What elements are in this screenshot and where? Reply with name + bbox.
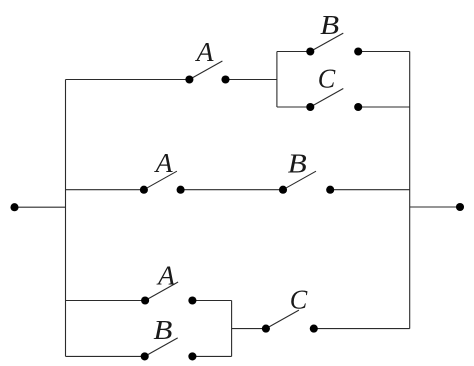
switch A1 blade <box>189 61 222 80</box>
svg-text:C: C <box>318 63 336 93</box>
svg-text:A: A <box>154 148 174 178</box>
label B3 <box>153 315 172 345</box>
wire bottom B right <box>192 355 231 357</box>
switch B1 blade <box>310 33 343 51</box>
wire top branch right <box>226 79 277 81</box>
switch A2 contact left <box>140 186 148 194</box>
right bus wire <box>409 52 411 329</box>
wire B1 right <box>358 51 410 53</box>
wire C1 right <box>358 106 410 108</box>
switch A3 contact right <box>188 296 196 304</box>
switch C1 contact left <box>306 103 314 111</box>
wire bottom A right <box>192 300 231 302</box>
wire middle branch left <box>66 189 144 191</box>
label B2 <box>288 148 307 178</box>
switch A3 contact left <box>141 296 149 304</box>
svg-text:A: A <box>156 260 176 290</box>
left terminal wire <box>15 206 66 208</box>
right terminal wire <box>410 206 460 208</box>
switch B1 contact right <box>354 47 362 55</box>
label C3 <box>290 285 308 315</box>
wire C3 left <box>232 328 266 330</box>
switch B2 blade <box>283 171 316 190</box>
switch A1 contact left <box>185 75 193 83</box>
wire top branch left <box>66 79 190 81</box>
label A3 <box>156 260 176 290</box>
switch C1 contact right <box>354 103 362 111</box>
label B1 <box>320 10 339 40</box>
wire middle branch center <box>181 189 283 191</box>
switch B2 contact left <box>279 186 287 194</box>
left terminal node <box>10 203 18 211</box>
switch A3 blade <box>145 282 178 301</box>
switch B1 contact left <box>306 47 314 55</box>
left bus wire <box>65 80 67 357</box>
wire C1 left <box>277 106 310 108</box>
switch B3 contact left <box>141 352 149 360</box>
svg-text:C: C <box>290 285 308 315</box>
node join vertical <box>231 301 233 357</box>
switch B3 contact right <box>188 352 196 360</box>
switch C3 contact left <box>262 325 270 333</box>
svg-text:A: A <box>194 37 214 67</box>
label A2 <box>154 148 174 178</box>
wire C3 right <box>314 328 410 330</box>
label A1 <box>194 37 214 67</box>
switch C3 blade <box>266 310 299 329</box>
label C1 <box>318 63 336 93</box>
svg-text:B: B <box>288 148 307 178</box>
switch C1 blade <box>310 89 343 108</box>
switch C3 contact right <box>310 325 318 333</box>
wire B1 left <box>277 51 310 53</box>
node split vertical <box>276 52 278 108</box>
svg-text:B: B <box>153 315 172 345</box>
wire bottom B left <box>66 355 145 357</box>
svg-text:B: B <box>320 10 339 40</box>
switch B2 contact right <box>326 186 334 194</box>
wire middle branch right <box>330 189 410 191</box>
switch B3 blade <box>145 338 178 357</box>
switch A2 contact right <box>177 186 185 194</box>
switch A1 contact right <box>221 75 229 83</box>
switch A2 blade <box>144 171 177 190</box>
wire bottom A left <box>66 300 146 302</box>
right terminal node <box>456 203 464 211</box>
